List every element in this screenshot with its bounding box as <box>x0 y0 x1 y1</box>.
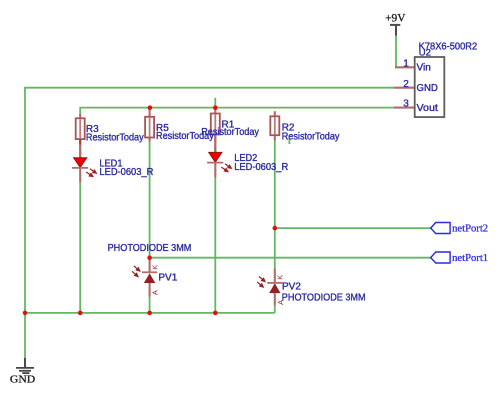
svg-text:PV1: PV1 <box>158 272 177 283</box>
svg-text:GND: GND <box>417 83 438 94</box>
svg-text:ResistorToday: ResistorToday <box>201 127 259 138</box>
svg-text:PV2: PV2 <box>282 282 301 293</box>
svg-text:Vout: Vout <box>417 103 439 114</box>
svg-text:A: A <box>151 290 160 295</box>
svg-text:LED-0603_R: LED-0603_R <box>99 167 153 178</box>
svg-text:2: 2 <box>403 79 409 90</box>
svg-text:LED-0603_R: LED-0603_R <box>234 162 288 173</box>
svg-text:1: 1 <box>403 59 409 70</box>
svg-text:netPort2: netPort2 <box>452 222 488 234</box>
svg-text:GND: GND <box>10 374 36 386</box>
svg-text:netPort1: netPort1 <box>452 252 488 264</box>
svg-text:3: 3 <box>403 99 409 110</box>
svg-text:ResistorToday: ResistorToday <box>86 132 144 143</box>
svg-text:K: K <box>276 275 285 280</box>
svg-text:PHOTODIODE 3MM: PHOTODIODE 3MM <box>108 243 192 254</box>
svg-text:Vin: Vin <box>417 63 431 74</box>
svg-text:PHOTODIODE 3MM: PHOTODIODE 3MM <box>282 292 366 303</box>
svg-text:K: K <box>151 265 160 270</box>
svg-text:+9V: +9V <box>385 12 406 24</box>
svg-text:U2: U2 <box>419 48 431 59</box>
svg-text:ResistorToday: ResistorToday <box>282 131 340 142</box>
